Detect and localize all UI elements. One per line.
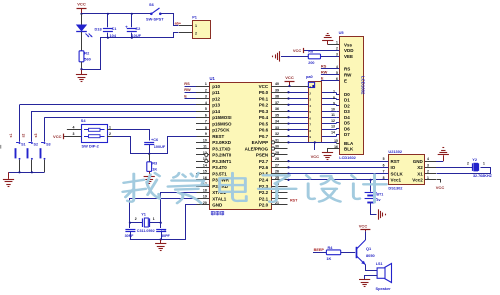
svg-text:6: 6 [205,113,207,117]
svg-text:p14: p14 [212,109,220,114]
svg-text:P0.6: P0.6 [259,128,269,133]
svg-text:2: 2 [195,31,197,35]
svg-text:36: 36 [275,107,279,111]
svg-text:4: 4 [309,104,311,108]
svg-text:9: 9 [205,132,207,136]
svg-text:GND: GND [413,159,424,164]
svg-text:33: 33 [275,126,279,130]
svg-text:SCLK: SCLK [391,171,404,176]
svg-text:S1: S1 [21,143,26,147]
svg-text:E: E [184,93,187,98]
svg-text:P2.7: P2.7 [259,159,269,164]
svg-text:s1: s1 [9,134,13,138]
svg-text:GND: GND [212,203,223,208]
svg-text:14: 14 [203,163,207,167]
svg-text:EA/VPP: EA/VPP [252,140,269,145]
svg-text:5: 5 [205,107,207,111]
svg-text:R2: R2 [84,51,90,56]
svg-text:5: 5 [309,110,311,114]
svg-text:1: 1 [309,85,311,89]
svg-text:s3: s3 [34,134,38,138]
svg-text:BT1: BT1 [376,192,383,196]
svg-text:30: 30 [275,145,279,149]
svg-text:P0.2: P0.2 [259,103,269,108]
svg-text:p15MOSI: p15MOSI [212,115,231,120]
svg-text:U1: U1 [210,76,216,81]
svg-text:LCD1602: LCD1602 [361,76,366,95]
svg-text:1: 1 [195,24,197,28]
svg-text:D18: D18 [95,27,103,32]
svg-text:Q1: Q1 [366,246,372,251]
svg-text:4: 4 [427,157,429,161]
svg-text:37: 37 [275,101,279,105]
svg-text:Vcc2: Vcc2 [412,178,423,183]
svg-text:DS1302: DS1302 [388,186,403,191]
svg-text:10: 10 [203,138,207,142]
svg-text:S3: S3 [46,143,51,147]
svg-text:8: 8 [333,96,335,100]
svg-text:P2.6: P2.6 [259,165,269,170]
svg-text:ALE/PROG: ALE/PROG [245,146,269,151]
svg-text:E: E [344,79,347,84]
svg-text:RST: RST [290,199,298,203]
svg-text:P2.0: P2.0 [259,203,269,208]
svg-text:VEE: VEE [344,54,353,59]
svg-text:R3: R3 [152,161,158,166]
svg-text:P1: P1 [192,15,198,20]
svg-text:D2: D2 [344,103,350,108]
svg-text:39: 39 [275,88,279,92]
svg-text:E: E [321,76,324,81]
svg-text:13: 13 [331,125,335,129]
svg-text:VCC: VCC [53,134,62,139]
svg-text:2: 2 [336,47,338,51]
svg-text:15: 15 [203,170,207,174]
svg-text:1: 1 [205,82,207,86]
svg-text:29: 29 [275,151,279,155]
svg-text:VCC: VCC [77,2,86,7]
svg-text:9: 9 [333,102,335,106]
svg-text:35: 35 [275,113,279,117]
svg-text:26: 26 [275,170,279,174]
svg-text:RST: RST [391,159,400,164]
svg-text:VCC: VCC [259,84,269,89]
svg-text:Y2: Y2 [472,157,478,162]
svg-text:pa0: pa0 [306,74,313,79]
svg-text:19: 19 [203,195,207,199]
svg-text:RS: RS [321,64,327,69]
svg-text:D7: D7 [344,132,350,137]
svg-text:p16MISO: p16MISO [212,121,232,126]
svg-text:Vss: Vss [344,42,353,47]
svg-text:1: 1 [483,162,485,166]
svg-text:SW DIP-2: SW DIP-2 [82,143,100,148]
svg-text:10: 10 [331,107,335,111]
svg-text:40: 40 [275,82,279,86]
svg-text:LCD1602: LCD1602 [339,155,356,160]
svg-text:p12: p12 [212,96,220,101]
svg-text:8: 8 [205,126,207,130]
svg-text:1: 1 [427,176,429,180]
svg-text:P2.2: P2.2 [259,190,269,195]
svg-text:30PF: 30PF [161,234,171,238]
svg-text:p11: p11 [212,90,220,95]
svg-text:IO: IO [391,165,396,170]
svg-text:D1: D1 [344,98,350,103]
svg-text:BEEP: BEEP [314,248,325,252]
svg-text:1K: 1K [326,256,331,261]
svg-text:VCC: VCC [311,154,320,159]
svg-text:P3.5T1: P3.5T1 [212,171,227,176]
svg-text:2: 2 [135,217,137,221]
svg-text:38: 38 [275,95,279,99]
svg-text:U21302: U21302 [388,149,402,154]
svg-text:+: + [125,25,128,30]
svg-text:8: 8 [383,176,385,180]
svg-text:16: 16 [203,176,207,180]
svg-text:P0.5: P0.5 [259,121,269,126]
svg-text:560: 560 [84,56,91,61]
svg-text:200: 200 [308,61,314,65]
svg-text:27: 27 [275,163,279,167]
svg-text:P0.3: P0.3 [259,109,269,114]
svg-text:6: 6 [383,163,385,167]
svg-text:32.768KHZ: 32.768KHZ [473,174,493,178]
svg-text:R8: R8 [308,50,313,54]
svg-text:RW: RW [344,73,352,78]
svg-text:S4: S4 [81,118,87,123]
svg-text:Speaker: Speaker [376,286,392,291]
svg-text:34: 34 [275,120,279,124]
svg-text:P2.4: P2.4 [259,178,269,183]
svg-text:P3.3INT1: P3.3INT1 [212,159,232,164]
svg-text:100UF: 100UF [154,145,166,149]
svg-text:2: 2 [427,170,429,174]
svg-text:D6: D6 [344,126,350,131]
svg-text:C311.0592: C311.0592 [137,229,155,233]
svg-text:C1: C1 [112,26,118,31]
svg-text:D5: D5 [344,121,350,126]
svg-text:31: 31 [275,138,279,142]
svg-text:11: 11 [203,145,207,149]
svg-text:18: 18 [203,188,207,192]
svg-text:BLK: BLK [344,147,354,152]
svg-text:VCC: VCC [293,48,302,53]
svg-text:REST: REST [212,134,224,139]
svg-text:R4: R4 [328,245,334,250]
svg-text:s2: s2 [21,134,25,138]
svg-text:P3.2INT0: P3.2INT0 [212,153,232,158]
svg-text:Y1: Y1 [141,211,147,216]
svg-text:p17SCK: p17SCK [212,128,230,133]
svg-text:VCC: VCC [359,223,368,228]
svg-text:P0.4: P0.4 [259,115,269,120]
svg-text:P0.0: P0.0 [259,90,269,95]
svg-text:C2: C2 [135,26,141,31]
svg-text:4: 4 [205,101,207,105]
svg-text:BLA: BLA [344,141,354,146]
svg-text:X1: X1 [417,171,423,176]
svg-text:D4: D4 [344,115,350,120]
svg-text:3: 3 [73,132,75,136]
svg-text:3: 3 [309,98,311,102]
svg-text:9: 9 [309,135,311,139]
svg-text:8050: 8050 [366,253,375,258]
svg-text:ab+: ab+ [175,22,181,26]
svg-text:SW-SPST: SW-SPST [146,17,164,22]
svg-text:D0: D0 [344,92,350,97]
svg-text:2: 2 [467,162,469,166]
svg-text:2: 2 [309,91,311,95]
svg-text:S2: S2 [34,143,39,147]
svg-text:RS: RS [184,81,190,86]
svg-text:2: 2 [109,132,111,136]
svg-text:S6: S6 [149,2,155,7]
svg-text:P0.1: P0.1 [259,96,269,101]
svg-text:PSEN: PSEN [256,153,268,158]
svg-text:3: 3 [427,163,429,167]
svg-text:6: 6 [309,116,311,120]
svg-text:Vcc1: Vcc1 [391,178,402,183]
svg-text:P2.1: P2.1 [259,196,269,201]
svg-text:20: 20 [203,201,207,205]
svg-text:p10: p10 [212,84,220,89]
svg-text:3: 3 [336,52,338,56]
svg-text:1K: 1K [152,166,157,171]
svg-text:28: 28 [275,157,279,161]
svg-text:14: 14 [331,130,335,134]
svg-text:11: 11 [331,113,335,117]
svg-text:8: 8 [309,129,311,133]
svg-text:VCC: VCC [436,185,445,190]
svg-text:P3.1TXD: P3.1TXD [212,146,231,151]
svg-text:32: 32 [275,132,279,136]
svg-text:U5: U5 [339,30,345,35]
svg-text:3: 3 [205,95,207,99]
svg-text:P0.7: P0.7 [259,134,269,139]
svg-text:4: 4 [73,126,75,130]
svg-text:5: 5 [383,157,385,161]
svg-text:7: 7 [333,90,335,94]
svg-text:+C6: +C6 [151,138,158,142]
svg-text:7: 7 [205,120,207,124]
svg-text:XTAL1: XTAL1 [212,196,226,201]
svg-text:7: 7 [309,123,311,127]
svg-text:RS: RS [344,67,350,72]
svg-text:1: 1 [153,217,155,221]
svg-text:P3.0RXD: P3.0RXD [212,140,232,145]
svg-text:X2: X2 [417,165,423,170]
svg-text:7: 7 [383,170,385,174]
svg-text:RW: RW [321,70,328,75]
svg-text:RW: RW [184,87,191,92]
svg-text:p13: p13 [212,103,220,108]
svg-text:VCC: VCC [285,75,294,80]
svg-text:2: 2 [205,88,207,92]
svg-text:LS1: LS1 [376,262,383,266]
svg-text:VDD: VDD [344,48,354,53]
svg-text:30PF: 30PF [125,234,135,238]
svg-text:P3.4T0: P3.4T0 [212,165,227,170]
svg-text:D3: D3 [344,109,350,114]
svg-text:12: 12 [331,119,335,123]
svg-text:1: 1 [109,126,111,130]
